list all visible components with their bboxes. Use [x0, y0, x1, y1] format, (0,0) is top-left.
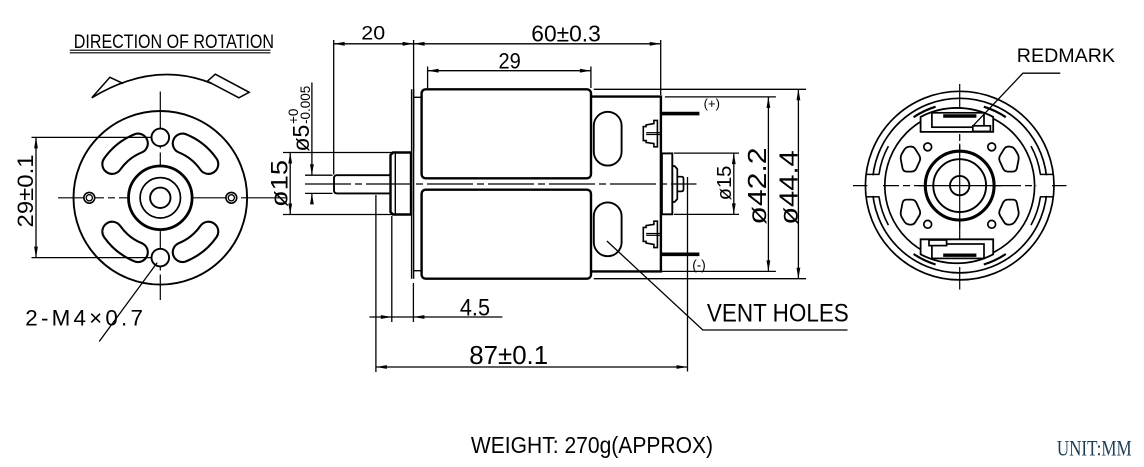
crimp tab arc upper-left	[914, 107, 936, 118]
dimension 29±0.1	[13, 137, 151, 257]
M4 screw hole bottom	[152, 249, 170, 267]
endcap housing	[591, 97, 661, 272]
svg-text:29±0.1: 29±0.1	[13, 154, 38, 227]
svg-text:2-M4×0.7: 2-M4×0.7	[25, 306, 146, 331]
rear screw hole top-right	[988, 143, 996, 151]
motor can upper half	[422, 89, 591, 178]
rear vent hole bottom-left	[901, 200, 920, 225]
rim arc fragment upper-right	[1031, 146, 1040, 174]
svg-text:VENT HOLES: VENT HOLES	[707, 301, 849, 328]
rim arc fragment lower-left	[879, 197, 888, 225]
dimension 4.5	[369, 216, 502, 322]
front view vertical centerline	[159, 92, 161, 301]
side view centerline	[305, 183, 697, 185]
rear vent hole bottom-right	[999, 200, 1018, 225]
vent hole top (side view)	[594, 112, 622, 166]
front vent slot bottom-right	[173, 222, 218, 262]
rear shaft end circle	[950, 176, 969, 195]
svg-text:(-): (-)	[692, 258, 706, 273]
title: DIRECTION OF ROTATION	[70, 30, 274, 52]
rear brush card circle	[885, 111, 1035, 261]
label REDMARK with leader	[974, 45, 1116, 125]
svg-text:ø44.4: ø44.4	[774, 150, 804, 225]
svg-text:UNIT:MM: UNIT:MM	[1057, 438, 1132, 461]
hub middle circle	[140, 178, 180, 218]
hub thick ring	[129, 166, 193, 230]
front vent slot top-right	[173, 134, 218, 174]
vent hole bottom (side view)	[594, 202, 622, 256]
svg-text:ø15: ø15	[714, 166, 736, 201]
rear screw hole bottom-left	[924, 220, 932, 228]
terminal (+) lead	[661, 112, 699, 116]
dimension 20	[334, 22, 414, 174]
rear bearing boss thick circle	[925, 151, 994, 220]
dimension 60±0.3	[414, 21, 661, 95]
crimp tab arc upper-right	[984, 107, 1006, 118]
keyway slot left	[866, 174, 883, 196]
rim arc fragment lower-right	[1031, 197, 1040, 225]
svg-text:4.5: 4.5	[460, 294, 490, 321]
front view outer circle (motor housing)	[74, 111, 248, 285]
crimp tab arc lower-left	[914, 254, 936, 265]
shaft circle	[150, 188, 170, 208]
rear bearing middle circle	[933, 159, 986, 212]
rear view horizontal centerline	[853, 185, 1067, 187]
dimension ø44.4	[594, 89, 806, 278]
side hole right	[226, 192, 237, 203]
svg-text:-0.005: -0.005	[298, 86, 313, 124]
side hole left	[84, 192, 95, 203]
motor can lower half	[422, 190, 591, 279]
svg-text:60±0.3: 60±0.3	[531, 21, 601, 47]
svg-text:ø15: ø15	[266, 160, 293, 207]
rear vent hole top-left	[901, 147, 920, 172]
svg-text:(+): (+)	[704, 96, 720, 111]
rear rim circle	[872, 98, 1047, 273]
label VENT HOLES with leader	[607, 241, 849, 330]
svg-text:DIRECTION OF ROTATION: DIRECTION OF ROTATION	[74, 30, 274, 52]
crimp tab arc lower-right	[984, 254, 1006, 265]
rotation arrow (curved, CCW)	[92, 74, 249, 98]
front vent slot top-left	[102, 134, 147, 174]
rear screw hole bottom-right	[988, 220, 996, 228]
brush box top	[921, 108, 994, 132]
dimension 29	[428, 49, 591, 89]
brush clip top	[643, 120, 661, 146]
dimension 87±0.1	[376, 177, 688, 372]
shaft	[334, 175, 392, 193]
front view horizontal centerline	[58, 197, 289, 199]
M4 screw hole top	[152, 129, 170, 147]
dimension ø5 with tolerance	[286, 83, 333, 205]
keyway slot right	[1036, 174, 1053, 196]
rear view vertical centerline	[959, 84, 961, 290]
svg-text:87±0.1: 87±0.1	[469, 342, 548, 370]
terminal (-) lead	[661, 253, 699, 257]
dimension ø42.2	[661, 97, 776, 272]
svg-text:29: 29	[499, 49, 521, 74]
svg-text:WEIGHT: 270g(APPROX): WEIGHT: 270g(APPROX)	[471, 432, 713, 458]
svg-text:20: 20	[361, 22, 385, 44]
front vent slot bottom-left	[102, 222, 147, 262]
brush clip bottom	[643, 221, 661, 247]
rim arc fragment upper-left	[879, 146, 888, 174]
rear vent hole top-right	[999, 147, 1018, 172]
rear crosshair inner	[918, 144, 1002, 228]
rear bearing boss	[662, 153, 684, 214]
dimension ø15 (front flange)	[266, 153, 393, 215]
rear screw hole top-left	[924, 143, 932, 151]
svg-text:ø5: ø5	[288, 125, 314, 152]
rear outer circle	[865, 91, 1054, 280]
front bearing flange	[391, 153, 412, 215]
label 2-M4x0.7	[25, 263, 157, 342]
brush box bottom	[921, 239, 994, 263]
svg-text:ø42.2: ø42.2	[742, 147, 772, 224]
can front face plate	[412, 89, 422, 278]
svg-text:REDMARK: REDMARK	[1017, 45, 1115, 67]
dimension ø15 (rear boss)	[674, 153, 739, 214]
